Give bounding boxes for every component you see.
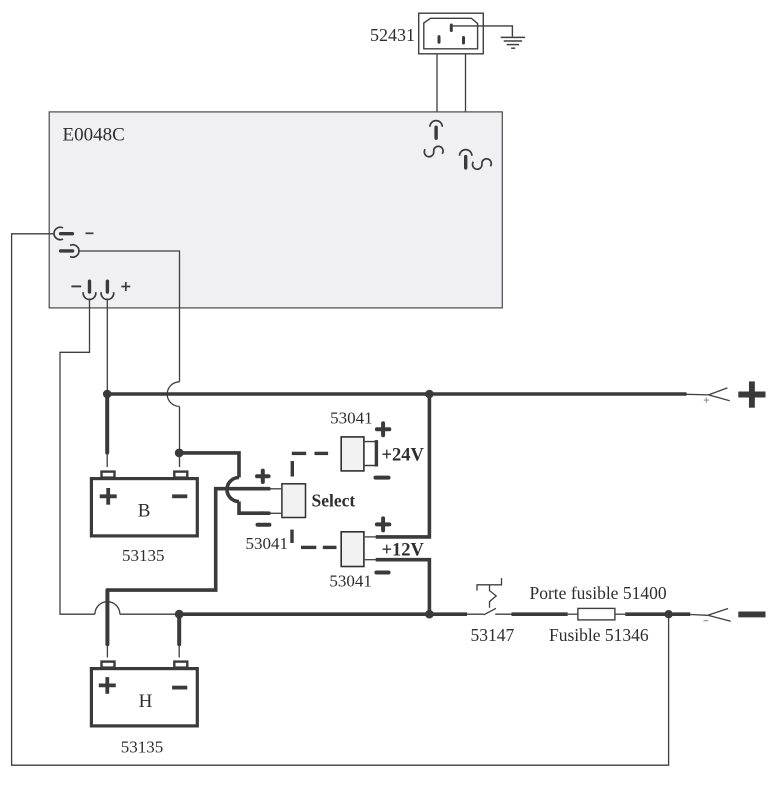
wire battery B minus lead bbox=[179, 453, 181, 467]
svg-text:53135: 53135 bbox=[121, 738, 164, 757]
wire end cap to Select upper pin bbox=[261, 487, 269, 491]
node plus bus / 12V feed bbox=[425, 390, 434, 399]
small plus mark bbox=[704, 398, 709, 403]
fuse holder (Fusible 51346) bbox=[578, 608, 615, 620]
connector (line input) arc bbox=[430, 121, 442, 127]
wire 12V minus lead bbox=[365, 559, 377, 561]
connector (output plus) arc bbox=[101, 292, 114, 299]
node minus bus / battery H bbox=[175, 610, 184, 619]
svg-text:53147: 53147 bbox=[471, 625, 515, 645]
wire output plus down to plus bus bbox=[106, 298, 108, 394]
svg-text:53041: 53041 bbox=[329, 572, 372, 591]
wire to Select lower pin (from battery B minus node) bbox=[179, 453, 263, 513]
svg-text:53135: 53135 bbox=[122, 546, 165, 565]
connector (sense minus) pin bbox=[61, 232, 73, 235]
battery H body bbox=[91, 669, 197, 726]
plus bus wire bbox=[107, 392, 686, 396]
wire 12V plus to plus bus bbox=[376, 394, 430, 537]
minus bus wire bbox=[179, 612, 467, 616]
battery H minus mark bbox=[172, 686, 187, 690]
connector (line input) pin bbox=[434, 127, 437, 138]
wire minus output lead bbox=[690, 614, 708, 617]
wire to fuse (left) bbox=[512, 612, 568, 616]
node minus bus / return loop bbox=[664, 610, 672, 618]
jack 12V body 53041 bbox=[341, 532, 364, 567]
svg-text:E0048C: E0048C bbox=[63, 124, 125, 145]
jack 24V bracket bbox=[365, 442, 376, 466]
power supply box E0048C bbox=[49, 112, 502, 308]
wire to Select upper pin (from battery H plus) bbox=[107, 489, 263, 590]
svg-text:H: H bbox=[139, 691, 153, 712]
wire plus output lead bbox=[687, 393, 709, 396]
label plus (select upper) bbox=[257, 471, 269, 482]
inlet earth pin bbox=[450, 25, 453, 31]
inlet line pin bbox=[438, 37, 441, 43]
battery B body bbox=[91, 479, 197, 536]
connector (output minus) arc bbox=[83, 292, 96, 299]
power inlet 52431 inner face bbox=[424, 18, 478, 49]
node battery B minus bbox=[175, 449, 184, 458]
small minus mark bbox=[704, 620, 709, 622]
wire battery B plus (thick) bbox=[105, 395, 109, 453]
label plus (output) bbox=[121, 282, 130, 291]
squiggle (line wire) bbox=[424, 146, 443, 156]
jack 24V body 53041 bbox=[341, 437, 364, 471]
connector (output minus) pin bbox=[88, 281, 91, 292]
svg-text:Porte fusible 51400: Porte fusible 51400 bbox=[530, 583, 667, 603]
label minus (sense) bbox=[86, 232, 94, 234]
label plus (12V) bbox=[377, 518, 389, 530]
svg-text:53041: 53041 bbox=[330, 408, 373, 427]
svg-text:52431: 52431 bbox=[370, 25, 415, 45]
big minus terminal bbox=[738, 611, 765, 617]
connector (charge minus) pin bbox=[61, 249, 73, 252]
wire inlet line to E0048C bbox=[436, 55, 438, 121]
battery H minus tab bbox=[174, 662, 187, 668]
label minus (24V) bbox=[376, 476, 389, 480]
label minus (12V) bbox=[376, 571, 388, 575]
battery B plus tab bbox=[102, 472, 115, 478]
svg-text:Select: Select bbox=[312, 490, 356, 510]
wire hop (charge-minus around plus bus) bbox=[167, 382, 179, 407]
inlet neutral pin bbox=[462, 38, 465, 44]
wire output minus loop (down and right to minus node) bbox=[60, 298, 175, 614]
ground bbox=[501, 37, 525, 48]
battery B minus mark bbox=[172, 494, 187, 498]
battery H plus tab bbox=[102, 662, 115, 668]
wire battery H minus (thick down) bbox=[177, 614, 181, 644]
connector (output plus) pin bbox=[106, 281, 109, 292]
minus output fork terminal bbox=[708, 609, 731, 622]
wire charge minus to node bbox=[79, 251, 180, 382]
connector (charge minus) arc bbox=[70, 245, 79, 257]
battery H plus mark bbox=[99, 677, 116, 694]
label minus (output) bbox=[71, 285, 81, 287]
svg-text:+12V: +12V bbox=[382, 540, 425, 560]
wire 12V plus lead bbox=[365, 536, 377, 538]
dashed link select to 12V jack bbox=[292, 530, 337, 548]
wire sense minus loop (left big loop to minus bus) bbox=[12, 234, 669, 765]
svg-text:53041: 53041 bbox=[246, 534, 289, 553]
switch 53147 bbox=[467, 578, 512, 615]
wire inlet neutral to E0048C bbox=[465, 55, 467, 150]
squiggle (neutral wire) bbox=[473, 159, 492, 169]
node plus bus / battery B bbox=[103, 390, 112, 399]
connector (neutral input) pin bbox=[464, 157, 467, 168]
connector (neutral input) arc bbox=[460, 150, 472, 156]
wire hop (minus line over battery H plus wire) bbox=[95, 602, 120, 615]
node minus bus / 12V return bbox=[425, 610, 434, 619]
wire hop (select wire over battery H plus wire) bbox=[227, 478, 239, 502]
selector box Select bbox=[282, 484, 306, 518]
wire battery H plus (thick down) bbox=[105, 590, 109, 644]
svg-text:+24V: +24V bbox=[382, 446, 425, 466]
svg-text:Fusible 51346: Fusible 51346 bbox=[549, 625, 649, 645]
battery B minus tab bbox=[174, 472, 187, 478]
plus output fork terminal bbox=[709, 388, 730, 401]
big plus terminal bbox=[738, 381, 765, 407]
wire from fuse (right) bbox=[615, 613, 625, 615]
wire 12V minus to minus bus bbox=[376, 560, 430, 615]
dashed link select to 24V jack bbox=[292, 453, 328, 476]
label minus (select lower) bbox=[258, 523, 270, 527]
wire earth to ground bbox=[453, 26, 513, 37]
power inlet 52431 outer body bbox=[419, 13, 484, 54]
wire end cap to Select lower pin bbox=[261, 511, 269, 515]
svg-text:B: B bbox=[138, 501, 151, 522]
connector (sense minus) arc bbox=[54, 227, 63, 239]
battery B plus mark bbox=[100, 488, 117, 505]
label plus (24V) bbox=[377, 423, 389, 435]
